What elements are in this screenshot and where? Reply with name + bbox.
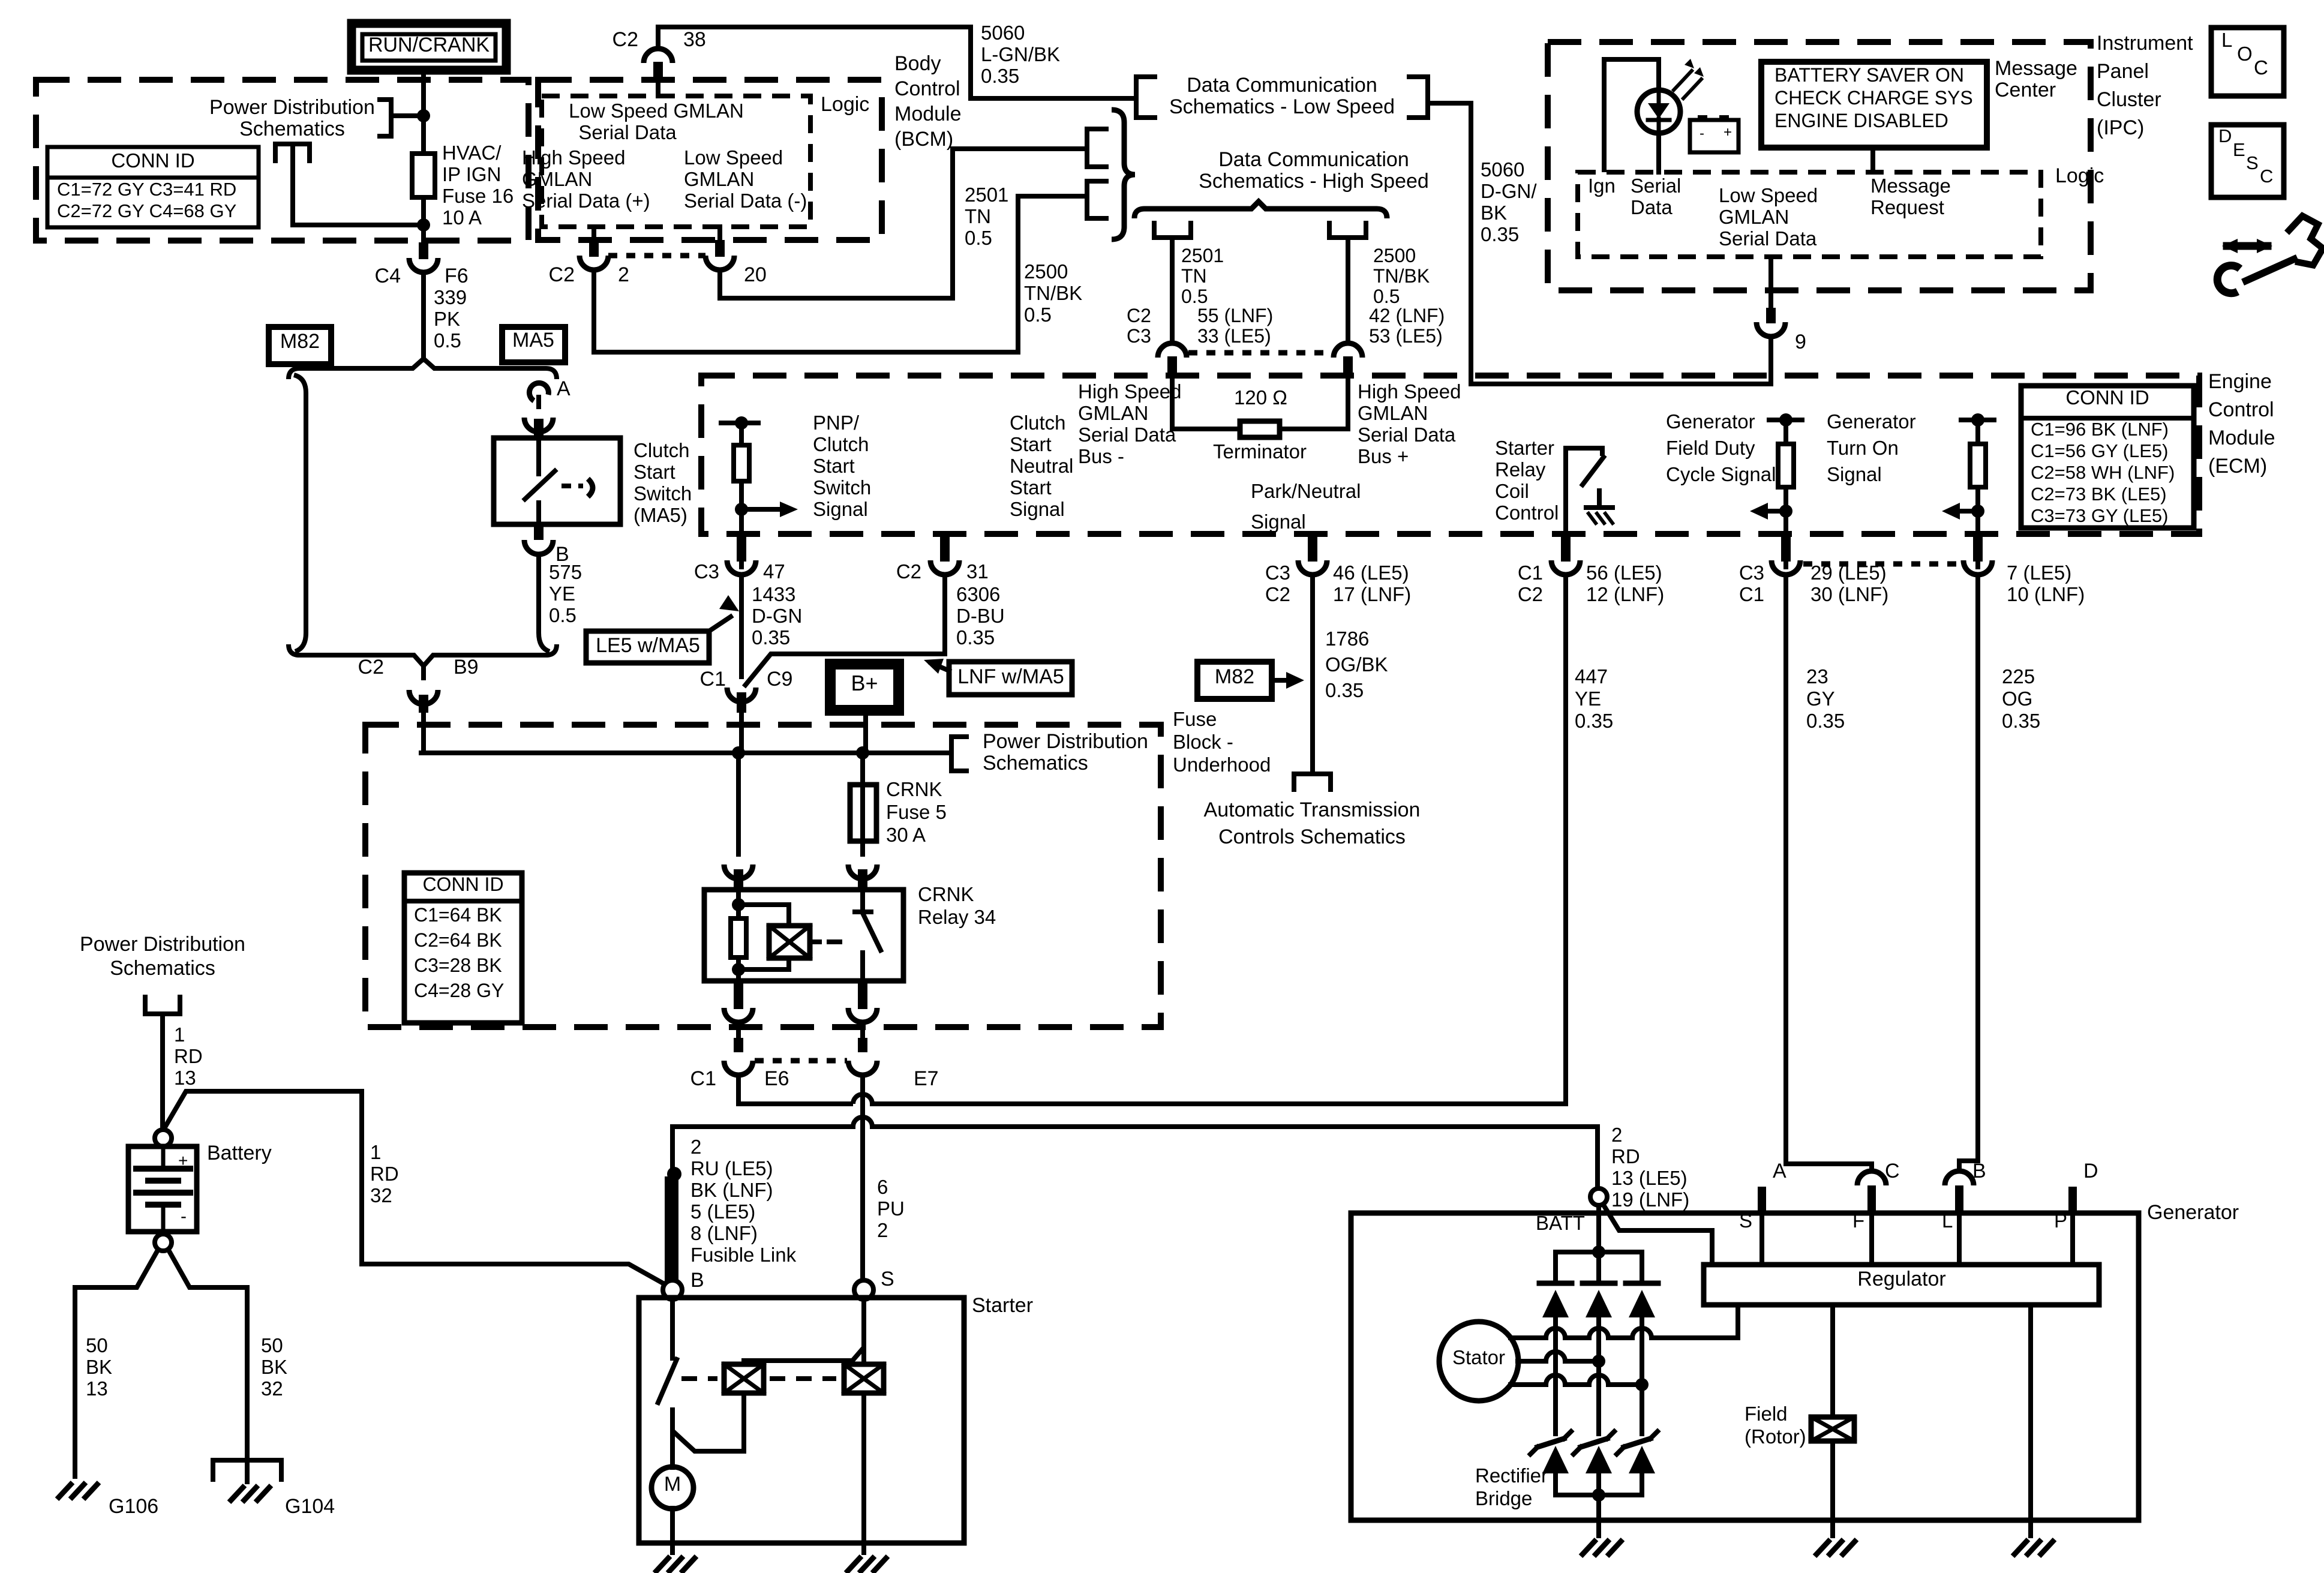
svg-text:D-GN/: D-GN/ — [1481, 180, 1537, 202]
connector A ring (clutch switch) — [529, 383, 548, 401]
wire bus to CRNK fuse — [860, 753, 865, 785]
svg-text:RUN/CRANK: RUN/CRANK — [368, 34, 490, 56]
svg-text:B+: B+ — [851, 671, 878, 695]
svg-text:BK: BK — [86, 1356, 112, 1378]
generator turn on driver — [1961, 418, 1994, 422]
svg-text:C1: C1 — [690, 1067, 716, 1090]
svg-text:-: - — [1700, 125, 1704, 142]
svg-text:Logic: Logic — [821, 93, 869, 116]
svg-text:(BCM): (BCM) — [894, 128, 953, 151]
relay input connector left — [734, 866, 743, 867]
svg-text:Controls Schematics: Controls Schematics — [1218, 825, 1406, 848]
svg-text:Message: Message — [1870, 175, 1951, 197]
svg-text:B9: B9 — [454, 656, 479, 679]
BATT feed to regulator S — [1603, 1204, 1712, 1265]
svg-text:23: 23 — [1806, 665, 1828, 688]
Power Distribution Schematics ref (fuse block) — [951, 737, 969, 771]
svg-text:C2: C2 — [1518, 583, 1543, 605]
svg-text:S: S — [2246, 152, 2259, 173]
CRNK Fuse 5 30A — [850, 785, 876, 841]
connector B below clutch switch — [534, 524, 544, 540]
solenoid coil 2 — [844, 1364, 884, 1393]
svg-text:C2: C2 — [896, 560, 921, 583]
svg-text:Clutch: Clutch — [633, 439, 690, 461]
svg-text:0.5: 0.5 — [549, 604, 577, 626]
svg-text:GMLAN: GMLAN — [1719, 206, 1789, 228]
svg-text:Control: Control — [1495, 502, 1559, 524]
svg-text:0.35: 0.35 — [956, 626, 995, 649]
svg-text:E: E — [2233, 139, 2245, 160]
svg-text:C3: C3 — [1127, 325, 1151, 347]
connector C2 pin B9 — [421, 666, 426, 678]
svg-text:50: 50 — [86, 1334, 108, 1356]
svg-text:Power Distribution: Power Distribution — [209, 96, 375, 119]
wire 447 YE down — [1563, 576, 1568, 1104]
svg-text:CRNK: CRNK — [918, 883, 974, 905]
svg-text:D: D — [2218, 125, 2232, 146]
ground regulator — [2013, 1539, 2028, 1556]
Data Communication Schematics - Low Speed reference brackets — [1136, 77, 1157, 118]
svg-text:A: A — [557, 377, 571, 400]
junction node — [417, 218, 430, 232]
svg-text:32: 32 — [261, 1377, 283, 1400]
svg-text:PK: PK — [434, 308, 460, 330]
fuse block (IP) dashed box — [36, 80, 529, 241]
svg-text:0.35: 0.35 — [1806, 710, 1845, 732]
svg-text:C1=56 GY (LE5): C1=56 GY (LE5) — [2031, 440, 2168, 461]
svg-text:0.5: 0.5 — [434, 329, 461, 352]
svg-text:0.5: 0.5 — [1024, 304, 1052, 326]
svg-text:Low Speed GMLAN: Low Speed GMLAN — [569, 100, 744, 122]
svg-text:+: + — [1724, 124, 1732, 140]
svg-text:C1=64 BK: C1=64 BK — [414, 904, 502, 926]
svg-text:1: 1 — [370, 1141, 381, 1163]
telltale LED frame — [1604, 59, 1659, 172]
svg-text:Start: Start — [813, 455, 855, 477]
svg-text:B: B — [1972, 1160, 1986, 1182]
svg-text:19 (LNF): 19 (LNF) — [1611, 1188, 1689, 1211]
svg-text:PNP/: PNP/ — [813, 412, 860, 434]
starter grounds — [654, 1556, 670, 1573]
svg-text:C: C — [1885, 1160, 1900, 1182]
svg-text:CHECK CHARGE SYS: CHECK CHARGE SYS — [1774, 87, 1973, 109]
AT controls ref pin bracket — [1294, 774, 1331, 792]
svg-text:RD: RD — [370, 1163, 399, 1185]
svg-text:C9: C9 — [767, 668, 792, 691]
svg-text:38: 38 — [683, 28, 706, 51]
svg-text:C3: C3 — [1739, 562, 1764, 584]
svg-text:0.35: 0.35 — [752, 626, 790, 649]
svg-text:55 (LNF): 55 (LNF) — [1197, 305, 1273, 326]
ECM pin 31 connector C2 — [940, 532, 950, 548]
svg-text:Bus -: Bus - — [1078, 445, 1124, 467]
svg-text:Power Distribution: Power Distribution — [80, 933, 245, 956]
wire fuse to relay input — [860, 841, 865, 854]
ground field — [1815, 1539, 1830, 1556]
in-line connector left drop — [1167, 356, 1177, 374]
svg-text:0.35: 0.35 — [1481, 223, 1519, 245]
svg-text:Power Distribution: Power Distribution — [983, 730, 1148, 753]
svg-text:OG: OG — [2002, 688, 2032, 710]
svg-text:C3=73 GY (LE5): C3=73 GY (LE5) — [2031, 505, 2168, 526]
LE5 w/MA5 callout — [586, 631, 709, 663]
svg-text:5060: 5060 — [1481, 158, 1524, 181]
svg-text:2500: 2500 — [1024, 260, 1068, 283]
relay switch — [860, 890, 865, 912]
svg-text:2: 2 — [877, 1219, 888, 1241]
connector row dotted line (29/7) — [1803, 562, 1960, 567]
svg-text:TN/BK: TN/BK — [1024, 282, 1082, 304]
svg-text:Neutral: Neutral — [1010, 455, 1073, 477]
svg-text:G106: G106 — [109, 1495, 158, 1518]
svg-text:Control: Control — [894, 77, 960, 100]
svg-text:32: 32 — [370, 1184, 392, 1206]
svg-text:Low Speed: Low Speed — [684, 146, 783, 169]
svg-text:(ECM): (ECM) — [2208, 455, 2267, 478]
rectifier bottom bus — [1556, 1493, 1642, 1497]
BCM pin 2 connector — [591, 227, 596, 240]
svg-text:High Speed: High Speed — [522, 146, 625, 169]
svg-text:C3: C3 — [694, 560, 719, 583]
svg-text:Field: Field — [1744, 1403, 1788, 1425]
wire 2 RD fusible link to generator BATT — [672, 1124, 853, 1129]
svg-text:0.5: 0.5 — [965, 227, 992, 249]
terminal A stub — [1758, 1187, 1766, 1211]
svg-text:Relay 34: Relay 34 — [918, 906, 996, 928]
svg-text:Bus +: Bus + — [1358, 445, 1409, 467]
junction node — [417, 109, 430, 122]
M82 ref box with arrow — [1197, 662, 1272, 699]
svg-text:Start: Start — [1010, 433, 1052, 455]
svg-text:S: S — [881, 1268, 894, 1290]
svg-text:Cycle Signal: Cycle Signal — [1666, 463, 1776, 485]
terminator bus inside ECM — [1170, 378, 1175, 429]
svg-text:2: 2 — [1611, 1124, 1622, 1146]
S wire through coil2 — [861, 1299, 866, 1364]
fuse HVAC/IP IGN Fuse 16 10A — [412, 154, 435, 197]
ground G104 — [211, 1458, 215, 1482]
wire B 575 YE down to brace — [539, 556, 550, 652]
svg-text:MA5: MA5 — [512, 329, 554, 352]
M82 box — [269, 327, 331, 364]
svg-text:CONN ID: CONN ID — [2065, 386, 2149, 409]
svg-text:Stator: Stator — [1452, 1346, 1505, 1368]
svg-text:Message: Message — [1995, 57, 2077, 80]
IPC pin 9 connector — [1768, 257, 1773, 309]
svg-text:Regulator: Regulator — [1857, 1268, 1945, 1290]
svg-text:13 (LE5): 13 (LE5) — [1611, 1167, 1688, 1189]
high speed reference brackets and brace — [1087, 129, 1109, 167]
svg-text:C: C — [2254, 56, 2268, 79]
svg-text:Park/Neutral: Park/Neutral — [1251, 480, 1361, 502]
in-line connector right drop — [1343, 356, 1353, 374]
svg-text:Fuse 16: Fuse 16 — [442, 185, 514, 207]
svg-text:TN: TN — [965, 205, 991, 227]
svg-text:30 A: 30 A — [886, 824, 926, 846]
svg-text:31: 31 — [966, 560, 989, 583]
wires through fuse block bottom — [736, 1023, 741, 1038]
svg-text:C1=72 GY C3=41 RD: C1=72 GY C3=41 RD — [57, 179, 236, 200]
rectifier zener diodes — [1538, 1439, 1564, 1447]
ECM starter relay coil control switch — [1566, 448, 1602, 534]
svg-text:Coil: Coil — [1495, 480, 1529, 502]
ground rectifier — [1581, 1539, 1596, 1556]
starter box — [639, 1298, 964, 1543]
svg-text:C4: C4 — [375, 265, 401, 287]
svg-text:CRNK: CRNK — [886, 778, 942, 800]
wire M82 branch (left) — [294, 375, 306, 652]
wire bus to relay coil input — [736, 753, 741, 854]
svg-text:42 (LNF): 42 (LNF) — [1369, 305, 1445, 326]
relay output connectors E-side — [734, 981, 743, 998]
connector C1 / C9 — [737, 689, 746, 691]
svg-text:Serial Data: Serial Data — [578, 121, 677, 143]
wire C4 down to brace — [421, 274, 426, 360]
svg-text:C2: C2 — [549, 263, 575, 286]
svg-text:C1=96 BK (LNF): C1=96 BK (LNF) — [2031, 419, 2169, 440]
svg-text:L: L — [2221, 29, 2232, 51]
LNF w/MA5 callout — [949, 662, 1072, 695]
svg-text:6306: 6306 — [956, 583, 1000, 605]
svg-text:2: 2 — [618, 263, 629, 286]
svg-text:C4=28 GY: C4=28 GY — [414, 980, 504, 1001]
svg-text:Schematics: Schematics — [983, 752, 1088, 775]
connector row dotted line (drops) — [1188, 350, 1332, 356]
svg-text:Signal: Signal — [813, 498, 868, 520]
svg-text:0.5: 0.5 — [1373, 286, 1400, 307]
brace under C4 (wire splits M82/MA5) — [289, 359, 557, 379]
DESC box — [2211, 125, 2284, 197]
svg-text:HVAC/: HVAC/ — [442, 142, 502, 164]
rectifier top diodes — [1539, 1281, 1572, 1286]
svg-text:Schematics - Low Speed: Schematics - Low Speed — [1169, 95, 1395, 118]
stator phase 2 — [1518, 1359, 1546, 1364]
svg-text:120 Ω: 120 Ω — [1234, 386, 1287, 409]
generator box — [1351, 1213, 2139, 1520]
relay coil circuit — [736, 890, 741, 918]
svg-text:46 (LE5): 46 (LE5) — [1333, 562, 1409, 584]
svg-text:C3: C3 — [1265, 562, 1290, 584]
rectifier columns — [1553, 1338, 1558, 1434]
wire fuse to C4 connector — [421, 197, 426, 242]
svg-text:Low Speed: Low Speed — [1719, 184, 1818, 206]
ECM pin 56 connector — [1561, 532, 1571, 548]
ground wires from battery — [75, 1249, 158, 1479]
coil1 to motor wire — [672, 1393, 744, 1451]
in-line connectors E6/E7 — [734, 1038, 743, 1052]
svg-text:Module: Module — [894, 103, 962, 125]
svg-text:Body: Body — [894, 52, 941, 75]
svg-text:Underhood: Underhood — [1173, 754, 1271, 776]
svg-text:2501: 2501 — [1181, 245, 1224, 266]
svg-text:Fuse 5: Fuse 5 — [886, 801, 947, 823]
motor — [651, 1467, 693, 1509]
svg-text:E7: E7 — [914, 1067, 939, 1090]
svg-text:Clutch: Clutch — [1010, 412, 1066, 434]
svg-text:G104: G104 — [285, 1495, 335, 1518]
ECM CONN ID table — [2021, 386, 2194, 528]
svg-text:IP IGN: IP IGN — [442, 163, 501, 185]
svg-text:High Speed: High Speed — [1078, 380, 1181, 403]
svg-text:(Rotor): (Rotor) — [1744, 1425, 1806, 1448]
svg-text:C1: C1 — [1518, 562, 1543, 584]
ECM outer dashed box — [701, 376, 2199, 534]
ECM pin 29 connector C3/C1 — [1781, 532, 1791, 548]
starter main contact — [670, 1299, 675, 1358]
svg-text:C2=58 WH (LNF): C2=58 WH (LNF) — [2031, 462, 2175, 483]
svg-text:Instrument: Instrument — [2097, 32, 2193, 55]
svg-text:High Speed: High Speed — [1358, 380, 1461, 403]
svg-text:Ign: Ign — [1588, 175, 1616, 197]
wire 1786 OG/BK to AT ref — [1310, 576, 1315, 770]
svg-text:13: 13 — [174, 1067, 196, 1089]
wire 225 OG down to B — [1959, 576, 1978, 1169]
fuse block underhood dashed box — [365, 725, 1161, 1027]
svg-text:C1: C1 — [700, 668, 726, 691]
svg-text:BK: BK — [261, 1356, 287, 1378]
svg-text:0.35: 0.35 — [2002, 710, 2040, 732]
connector C4 pin F6 — [419, 242, 428, 259]
svg-text:C2: C2 — [358, 656, 384, 679]
svg-text:30 (LNF): 30 (LNF) — [1810, 583, 1888, 605]
svg-text:5060: 5060 — [981, 22, 1025, 44]
terminator resistor 120 ohm — [1240, 421, 1280, 437]
stator phase 1 to regulator — [1511, 1335, 1546, 1340]
svg-text:Generator: Generator — [1666, 410, 1755, 433]
svg-text:Serial: Serial — [1631, 175, 1681, 197]
B+ box — [830, 664, 899, 710]
clutch start switch box (MA5) — [494, 438, 620, 524]
battery feed wire 1 RD 32 — [163, 1091, 664, 1284]
svg-text:D-BU: D-BU — [956, 605, 1005, 627]
svg-text:Signal: Signal — [1010, 498, 1065, 520]
svg-text:5 (LE5): 5 (LE5) — [690, 1200, 755, 1223]
starter S terminal ring — [854, 1280, 873, 1299]
svg-text:D: D — [2083, 1160, 2098, 1182]
connector row dotted line (BCM C2) — [608, 253, 705, 259]
svg-text:C2=64 BK: C2=64 BK — [414, 929, 502, 951]
wire 5060 L-GN/BK from pin 38 — [658, 27, 1136, 98]
svg-text:1786: 1786 — [1325, 628, 1369, 650]
svg-text:C2=72 GY C4=68 GY: C2=72 GY C4=68 GY — [57, 200, 236, 221]
svg-text:8 (LNF): 8 (LNF) — [690, 1222, 758, 1244]
svg-text:RU (LE5): RU (LE5) — [690, 1157, 773, 1179]
regulator right ground leg — [2028, 1305, 2033, 1536]
svg-text:C2: C2 — [1127, 305, 1151, 326]
svg-text:C1: C1 — [1739, 583, 1764, 605]
svg-text:E6: E6 — [764, 1067, 789, 1090]
high speed group brace — [1134, 202, 1387, 218]
svg-text:C2: C2 — [1265, 583, 1290, 605]
svg-text:BATTERY SAVER ON: BATTERY SAVER ON — [1774, 64, 1964, 86]
svg-text:Engine: Engine — [2208, 370, 2272, 393]
svg-text:Rectifier: Rectifier — [1475, 1464, 1548, 1487]
svg-text:(IPC): (IPC) — [2097, 116, 2144, 139]
svg-text:Serial Data: Serial Data — [1719, 227, 1817, 250]
regulator box — [1704, 1265, 2099, 1305]
BCM outer dashed box — [538, 80, 882, 240]
svg-text:Schematics - High Speed: Schematics - High Speed — [1199, 170, 1429, 193]
wire C1 into fuse block to bus — [739, 713, 744, 753]
svg-text:F: F — [1852, 1209, 1864, 1232]
svg-text:-: - — [181, 1206, 187, 1226]
wire E7 down to starter S — [860, 1076, 865, 1281]
wire 6306 D-BU to C9 joint — [744, 576, 945, 687]
svg-text:Logic: Logic — [2055, 164, 2104, 187]
svg-text:6: 6 — [877, 1176, 888, 1198]
svg-text:GMLAN: GMLAN — [684, 168, 754, 190]
svg-text:Control: Control — [2208, 398, 2274, 421]
stator — [1439, 1322, 1518, 1401]
svg-text:Module: Module — [2208, 427, 2275, 449]
wire 5060 D-GN/BK to IPC pin 9 — [1428, 103, 1771, 384]
battery negative terminal — [155, 1234, 172, 1251]
svg-text:Start: Start — [633, 461, 675, 483]
svg-text:10 (LNF): 10 (LNF) — [2007, 583, 2085, 605]
ECM pin 7 connector — [1973, 532, 1983, 548]
svg-text:Schematics: Schematics — [110, 957, 215, 980]
svg-text:Center: Center — [1995, 79, 2056, 101]
svg-text:Schematics: Schematics — [239, 118, 345, 140]
svg-text:33 (LE5): 33 (LE5) — [1197, 325, 1271, 347]
svg-text:YE: YE — [1575, 688, 1601, 710]
svg-text:M82: M82 — [280, 330, 320, 353]
svg-text:P: P — [2054, 1209, 2067, 1232]
svg-text:56 (LE5): 56 (LE5) — [1586, 562, 1662, 584]
svg-text:Starter: Starter — [972, 1294, 1033, 1317]
wire E6 to ECM 447 (coil control) — [736, 1076, 741, 1104]
svg-text:LNF w/MA5: LNF w/MA5 — [957, 665, 1064, 688]
drop bracket 2500 TN/BK — [1329, 221, 1366, 238]
svg-text:B: B — [690, 1269, 704, 1292]
svg-text:OG/BK: OG/BK — [1325, 653, 1388, 676]
svg-text:50: 50 — [261, 1334, 283, 1356]
svg-text:YE: YE — [549, 583, 575, 605]
LED lightning arrows — [1674, 71, 1692, 90]
IPC outer dashed box — [1548, 42, 2091, 290]
svg-text:C2: C2 — [612, 28, 638, 51]
CONN ID table (fuse block) — [47, 147, 259, 227]
svg-text:Data Communication: Data Communication — [1187, 74, 1377, 97]
svg-text:TN/BK: TN/BK — [1373, 265, 1430, 287]
service wrench icon — [2287, 216, 2323, 265]
svg-text:D-GN: D-GN — [752, 605, 802, 627]
svg-text:2501: 2501 — [965, 184, 1008, 206]
svg-text:CONN ID: CONN ID — [111, 149, 194, 172]
svg-text:TN: TN — [1181, 265, 1207, 287]
MA5 box — [502, 327, 565, 362]
svg-text:BATT: BATT — [1536, 1212, 1585, 1234]
svg-text:20: 20 — [744, 263, 767, 286]
wire 2500 TN/BK pin2 to high-speed bracket — [594, 196, 1087, 352]
svg-text:C: C — [2260, 166, 2273, 187]
svg-text:0.5: 0.5 — [1181, 286, 1208, 307]
wire message box to logic — [1870, 148, 1875, 172]
CRNK Relay 34 box — [704, 890, 903, 981]
drop bracket 2501 TN — [1154, 221, 1191, 238]
svg-text:17 (LNF): 17 (LNF) — [1333, 583, 1411, 605]
svg-text:GMLAN: GMLAN — [1078, 402, 1148, 424]
svg-text:Start: Start — [1010, 476, 1052, 499]
svg-text:Clutch: Clutch — [813, 433, 869, 455]
svg-text:A: A — [1773, 1160, 1786, 1182]
svg-text:PU: PU — [877, 1197, 905, 1220]
svg-text:C3=28 BK: C3=28 BK — [414, 954, 502, 976]
ECM pin 47 connector C3 — [737, 532, 746, 548]
generator BATT ring terminal — [1590, 1188, 1607, 1205]
BATT wire into rectifier — [1596, 1205, 1601, 1283]
BCM logic inner dashed box — [542, 96, 810, 227]
